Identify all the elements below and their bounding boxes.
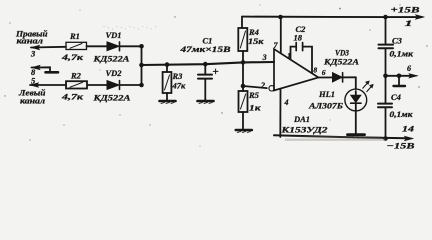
svg-text:VD1: VD1 [106, 30, 122, 40]
svg-text:0,1мк: 0,1мк [390, 50, 415, 59]
svg-text:+15В: +15В [391, 5, 421, 15]
svg-text:КД522А: КД522А [92, 54, 130, 64]
svg-text:канал: канал [20, 97, 45, 106]
svg-text:КД522А: КД522А [92, 93, 131, 103]
svg-text:R3: R3 [172, 71, 184, 81]
svg-text:4: 4 [284, 98, 289, 107]
svg-text:0,1мк: 0,1мк [390, 110, 414, 119]
svg-text:47мк×15В: 47мк×15В [179, 45, 231, 54]
svg-text:14: 14 [402, 124, 414, 134]
svg-text:15к: 15к [248, 36, 264, 46]
svg-text:КД522А: КД522А [323, 56, 360, 66]
svg-text:1: 1 [287, 52, 291, 61]
svg-text:DA1: DA1 [293, 114, 310, 124]
svg-text:6: 6 [407, 64, 411, 73]
svg-text:АЛ307Б: АЛ307Б [308, 101, 344, 111]
svg-text:3: 3 [30, 49, 36, 59]
svg-text:VD2: VD2 [106, 68, 123, 78]
svg-text:7: 7 [274, 41, 279, 50]
svg-text:4,7к: 4,7к [61, 52, 84, 62]
svg-text:R5: R5 [248, 90, 260, 100]
svg-text:К153УД2: К153УД2 [280, 125, 328, 135]
svg-text:1: 1 [405, 18, 413, 28]
svg-text:8: 8 [313, 65, 317, 74]
svg-text:C1: C1 [203, 36, 213, 46]
svg-text:3: 3 [262, 53, 267, 62]
svg-text:2: 2 [260, 81, 265, 90]
svg-text:6: 6 [322, 68, 326, 77]
svg-text:18: 18 [294, 33, 303, 43]
svg-text:R1: R1 [69, 31, 80, 41]
svg-text:C4: C4 [391, 92, 401, 102]
svg-text:47к: 47к [172, 81, 187, 91]
svg-text:HL1: HL1 [318, 89, 335, 99]
svg-text:1к: 1к [249, 103, 261, 113]
svg-text:C3: C3 [392, 36, 403, 46]
svg-text:канал: канал [17, 37, 44, 46]
svg-text:4,7к: 4,7к [61, 92, 84, 102]
svg-text:R2: R2 [70, 71, 82, 81]
svg-text:−15В: −15В [387, 141, 415, 151]
